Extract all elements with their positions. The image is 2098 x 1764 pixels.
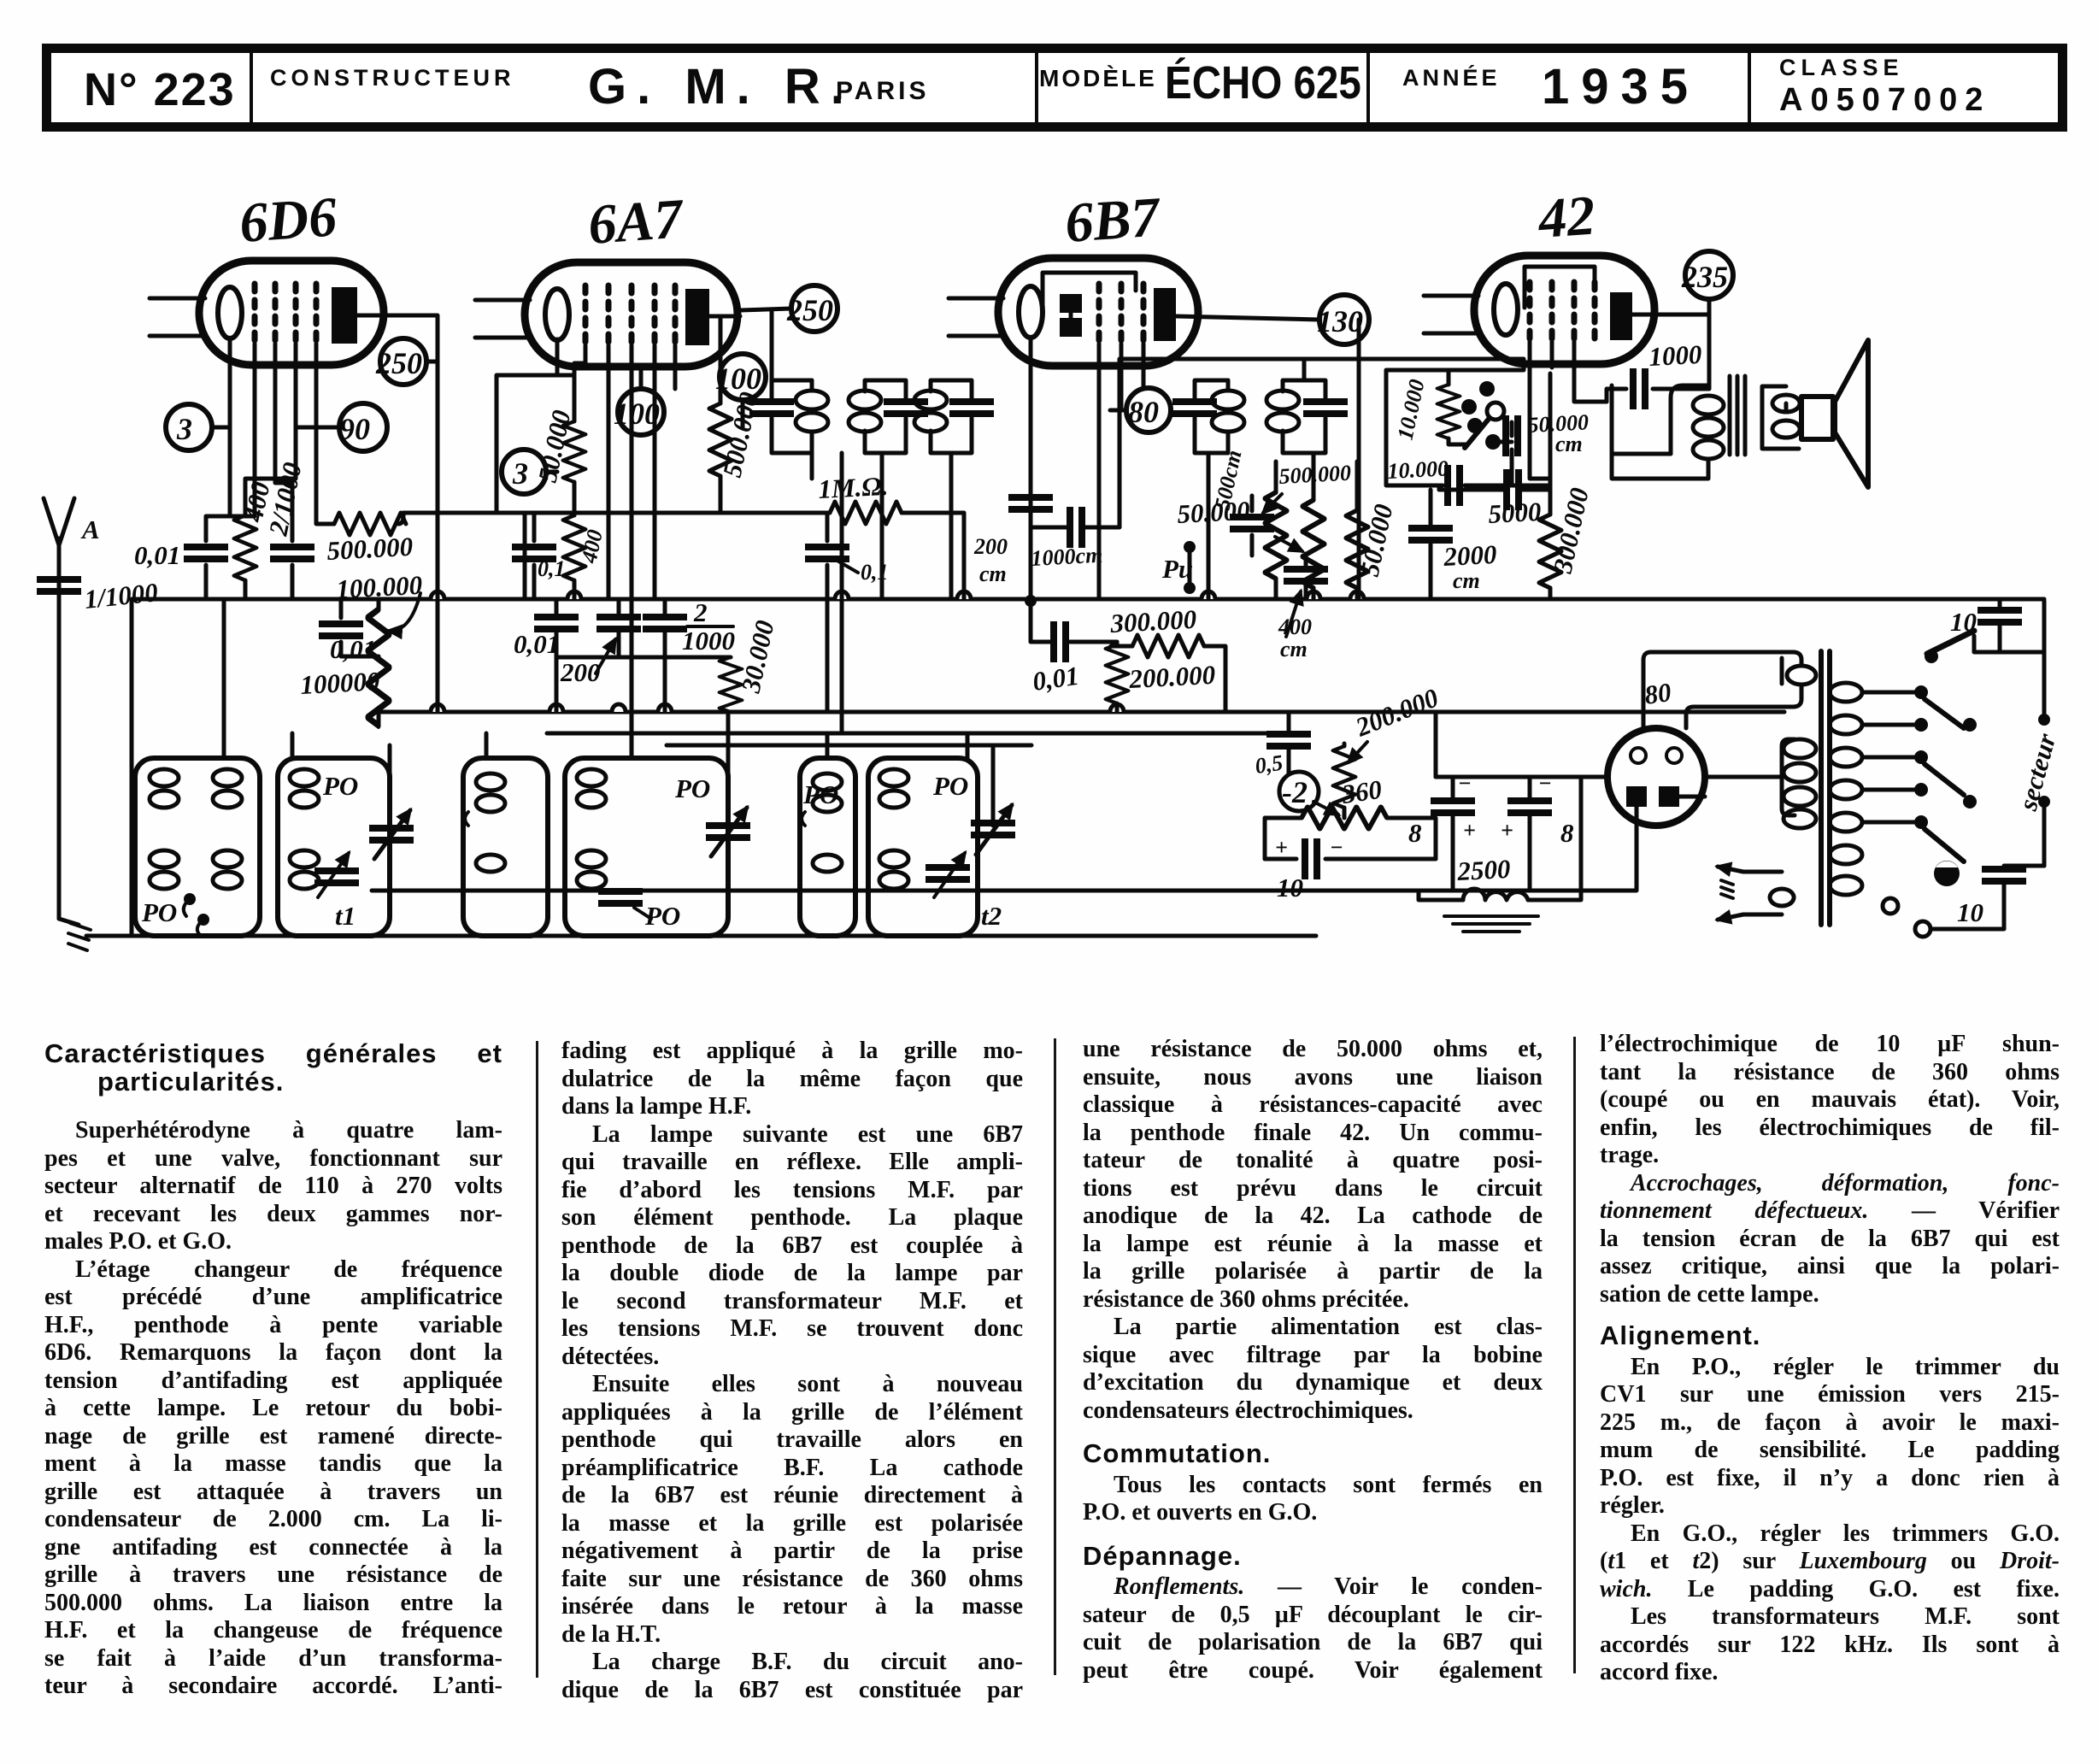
svg-text:30.000: 30.000 [735,618,779,697]
svg-text:80: 80 [1128,395,1159,429]
svg-text:0,5: 0,5 [1254,750,1284,779]
svg-text:2/1000: 2/1000 [262,460,307,538]
svg-text:Pu: Pu [1161,554,1193,584]
svg-text:10.000: 10.000 [1393,377,1430,442]
svg-text:6A7: 6A7 [586,187,687,256]
svg-text:cm: cm [979,562,1007,586]
svg-text:90: 90 [339,412,370,446]
svg-text:-2: -2 [1282,775,1308,809]
svg-text:PO: PO [644,901,680,931]
svg-text:−: − [1538,771,1552,796]
svg-text:cm: cm [1453,568,1480,593]
svg-text:8: 8 [1560,818,1574,848]
svg-text:10: 10 [1957,897,1983,927]
svg-text:300.000: 300.000 [1109,604,1197,638]
svg-text:0,1: 0,1 [538,556,566,581]
svg-text:8: 8 [1408,818,1422,848]
svg-text:250: 250 [786,293,833,327]
svg-text:80: 80 [1643,677,1673,710]
svg-text:400: 400 [1278,614,1312,639]
svg-text:PO: PO [802,779,838,809]
svg-text:2000: 2000 [1443,539,1498,572]
svg-text:200: 200 [973,534,1008,559]
svg-text:0,1: 0,1 [861,560,889,585]
svg-text:1M.Ω.: 1M.Ω. [818,471,889,504]
svg-text:235: 235 [1681,260,1728,294]
svg-text:1/1000: 1/1000 [83,577,159,614]
svg-text:t2: t2 [981,901,1002,931]
svg-text:130: 130 [1317,304,1363,338]
svg-text:10: 10 [1277,873,1303,903]
svg-text:200.000: 200.000 [1351,682,1443,743]
svg-text:A: A [80,514,100,544]
svg-text:cm: cm [1555,432,1583,456]
svg-text:300.000: 300.000 [1547,485,1594,577]
svg-text:1000cm: 1000cm [1031,543,1103,571]
svg-text:6D6: 6D6 [238,185,338,255]
svg-text:+: + [1275,835,1288,860]
svg-text:3: 3 [176,412,192,446]
svg-text:0,01: 0,01 [514,629,560,659]
svg-text:500.000: 500.000 [326,532,414,566]
svg-text:PO: PO [674,773,710,803]
svg-text:cm: cm [1280,637,1308,661]
svg-text:2500: 2500 [1456,854,1512,886]
svg-text:100000: 100000 [300,666,381,700]
svg-text:+: + [1463,818,1476,843]
svg-text:PO: PO [932,771,968,801]
svg-text:250: 250 [375,346,422,380]
svg-text:10: 10 [1950,607,1977,637]
svg-text:10.000: 10.000 [1387,456,1449,484]
svg-text:500.000: 500.000 [1278,461,1352,489]
svg-text:6B7: 6B7 [1063,185,1164,255]
svg-text:42: 42 [1535,185,1597,251]
svg-text:2: 2 [693,597,708,627]
svg-text:1000: 1000 [682,626,735,656]
svg-text:200: 200 [560,657,601,687]
svg-text:0,01: 0,01 [134,540,180,570]
svg-text:3: 3 [512,456,528,491]
svg-text:t1: t1 [335,901,356,931]
svg-text:0,01: 0,01 [1031,661,1081,697]
svg-text:PO: PO [322,771,358,801]
svg-text:1000: 1000 [1648,339,1703,372]
svg-text:−: − [1330,835,1343,860]
svg-text:PO: PO [141,897,177,927]
svg-text:+: + [1501,818,1513,843]
svg-text:secteur: secteur [2013,730,2062,814]
svg-text:−: − [1458,771,1472,796]
svg-text:200.000: 200.000 [1128,660,1216,694]
svg-text:5000: 5000 [1488,497,1543,529]
